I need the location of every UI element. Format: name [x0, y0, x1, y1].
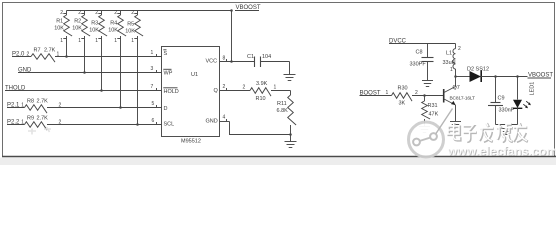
svg-text:L1: L1 — [446, 51, 452, 57]
IC U1 M95512 EEPROM — [162, 47, 220, 145]
wire R30 to base — [412, 95, 444, 97]
pin 1 number — [151, 50, 157, 57]
svg-text:R7: R7 — [34, 48, 41, 54]
svg-text:2: 2 — [223, 84, 226, 90]
resistor R4 10K pull-up — [108, 10, 126, 109]
pin 3 number — [151, 66, 157, 73]
net label GND — [18, 68, 32, 74]
svg-text:33uH: 33uH — [443, 60, 456, 66]
svg-text:R3: R3 — [91, 20, 98, 26]
node junction R3 — [100, 89, 103, 92]
svg-text:2.7K: 2.7K — [37, 99, 49, 105]
resistor R10 3.9K — [243, 81, 277, 102]
wire P2.2 row — [7, 124, 25, 126]
resistor R30 3K — [392, 86, 419, 107]
net label VBOOST (left block) — [235, 5, 261, 11]
diode D2 SS12 — [467, 67, 489, 83]
ground (C1) — [284, 75, 296, 81]
svg-text:C9: C9 — [498, 96, 505, 102]
wire BOOST to R30 — [360, 95, 392, 97]
net label THOLD — [5, 86, 26, 92]
node LED junction — [516, 75, 519, 78]
capacitor C1 104 — [247, 54, 271, 67]
ground (R31) — [419, 127, 430, 133]
svg-text:1: 1 — [60, 38, 63, 44]
svg-text:47K: 47K — [429, 112, 439, 118]
svg-text:U1: U1 — [191, 72, 198, 78]
svg-text:GND: GND — [206, 119, 218, 125]
svg-text:1: 1 — [274, 85, 277, 91]
watermark url elecfans.com — [447, 144, 556, 159]
node junction R1 — [65, 55, 68, 58]
node junction R5 — [136, 123, 139, 126]
svg-text:4: 4 — [223, 115, 226, 121]
svg-text:2: 2 — [131, 10, 134, 16]
node base/R31 junction — [423, 94, 426, 97]
node VBOOST/VCC junction — [230, 60, 233, 63]
svg-text:R31: R31 — [428, 103, 438, 109]
pin 2 Q stub — [220, 84, 251, 91]
svg-text:VCC: VCC — [206, 58, 218, 64]
resistor R31 47K — [422, 96, 439, 127]
svg-text:5: 5 — [152, 101, 155, 107]
transistor Q7 BC817-16LT — [444, 77, 475, 122]
pin 8 VCC stub — [220, 56, 255, 62]
svg-text:SCL: SCL — [164, 121, 175, 127]
svg-text:330nF: 330nF — [499, 108, 515, 114]
svg-text:R8: R8 — [27, 99, 34, 105]
resistor R3 10K pull-up — [89, 10, 107, 92]
schematic outer frame — [3, 3, 555, 157]
net label VBOOST (right) — [528, 73, 554, 79]
ground (C9/LED) — [501, 125, 512, 135]
node junction R4 — [119, 106, 122, 109]
svg-text:2.7K: 2.7K — [37, 116, 49, 122]
wire P2.0 row — [12, 56, 31, 58]
svg-text:1: 1 — [95, 38, 98, 44]
resistor R2 10K pull-up — [72, 10, 90, 74]
svg-text:3.9K: 3.9K — [256, 81, 268, 87]
node C9 junction — [494, 75, 497, 78]
svg-text:Q7: Q7 — [453, 85, 460, 91]
net label P2.1 — [7, 103, 24, 109]
svg-text:3: 3 — [151, 66, 154, 72]
svg-text:10K: 10K — [54, 26, 64, 32]
svg-text:R30: R30 — [398, 86, 408, 92]
svg-text:6: 6 — [152, 118, 155, 124]
wire C1 to ground — [261, 61, 290, 63]
svg-text:10K: 10K — [108, 27, 118, 33]
inductor L1 33uH — [443, 44, 462, 77]
node collector/diode junction — [454, 75, 457, 78]
ground (C8) — [422, 81, 433, 87]
wire DVCC rail — [389, 43, 456, 45]
svg-text:R1: R1 — [56, 19, 63, 25]
ground (IC/R11) — [285, 135, 297, 148]
svg-text:WP: WP — [164, 71, 173, 77]
svg-text:2: 2 — [78, 10, 81, 16]
svg-text:2: 2 — [458, 46, 461, 52]
svg-text:R5: R5 — [127, 21, 134, 27]
net label DVCC — [389, 39, 407, 45]
capacitor C8 330PF — [410, 44, 434, 81]
svg-text:10K: 10K — [125, 28, 135, 34]
LED LED1 — [513, 77, 536, 125]
svg-text:2: 2 — [95, 10, 98, 16]
svg-text:D: D — [164, 106, 168, 112]
node VBOOST junction — [230, 9, 233, 12]
svg-text:R10: R10 — [256, 96, 266, 102]
svg-text:1: 1 — [131, 38, 134, 44]
svg-text:7: 7 — [151, 84, 154, 90]
node R11/GND junction — [289, 133, 292, 136]
svg-text:LED1: LED1 — [530, 82, 536, 96]
svg-text:2: 2 — [114, 10, 117, 16]
wire GND row — [18, 72, 162, 74]
resistor R8 2.7K — [25, 99, 62, 114]
resistor R5 10K pull-up — [125, 10, 143, 126]
wire node to diode — [456, 76, 471, 78]
svg-text:HOLD: HOLD — [164, 89, 179, 95]
svg-text:2: 2 — [243, 85, 246, 91]
svg-text:2.7K: 2.7K — [44, 48, 56, 54]
svg-text:Q: Q — [214, 88, 219, 94]
wire diode to VBOOST — [481, 76, 528, 78]
svg-text:1: 1 — [78, 38, 81, 44]
svg-text:1: 1 — [114, 38, 117, 44]
pin 7 number — [151, 84, 157, 91]
svg-text:6.8K: 6.8K — [277, 108, 289, 114]
svg-text:M95512: M95512 — [181, 139, 201, 145]
faint watermark remnant — [28, 127, 51, 135]
resistor R9 2.7K — [25, 116, 62, 131]
watermark logo circle — [409, 109, 453, 158]
svg-text:330PF: 330PF — [410, 62, 427, 68]
wire GND pin to ground node — [230, 122, 291, 135]
pin 4 GND stub — [220, 115, 230, 122]
svg-text:R11: R11 — [277, 101, 287, 107]
pin 5 number — [152, 101, 157, 108]
svg-text:R9: R9 — [27, 116, 34, 122]
svg-text:BC817-16LT: BC817-16LT — [450, 96, 476, 102]
wire P2.1 row — [7, 107, 25, 109]
wire THOLD row — [5, 90, 162, 92]
wire VBOOST top rail — [67, 10, 232, 12]
svg-text:1: 1 — [450, 67, 453, 73]
wire VBOOST vertical drop to VCC — [231, 11, 233, 62]
ground (Q7 emitter) — [450, 122, 461, 128]
pin 6 number — [152, 118, 157, 125]
net label P2.0 — [12, 52, 30, 58]
wire C9/LED ground run — [496, 124, 518, 126]
resistor R1 10K pull-up — [54, 10, 72, 58]
svg-text:2: 2 — [60, 10, 63, 16]
svg-text:10K: 10K — [89, 27, 99, 33]
svg-text:R4: R4 — [110, 20, 117, 26]
svg-text:8: 8 — [223, 56, 226, 62]
svg-text:R2: R2 — [74, 19, 81, 25]
net label P2.2 — [7, 120, 24, 126]
svg-text:10K: 10K — [72, 26, 82, 32]
capacitor C9 330nF — [488, 77, 515, 125]
net label BOOST — [360, 90, 389, 97]
watermark text dianzifashaoyou — [449, 123, 528, 142]
svg-text:1: 1 — [151, 50, 154, 56]
svg-text:C1: C1 — [247, 54, 254, 60]
page background strip below schematic frame — [0, 158, 556, 165]
wire R10 to R11 — [271, 90, 291, 92]
svg-text:104: 104 — [262, 54, 271, 60]
svg-text:S: S — [164, 51, 168, 57]
node junction R2 — [83, 71, 86, 74]
svg-text:www.elecfans.com: www.elecfans.com — [447, 144, 556, 158]
svg-text:3K: 3K — [399, 101, 406, 107]
resistor R7 2.7K — [31, 48, 60, 63]
resistor R11 6.8K — [277, 91, 297, 135]
svg-text:C8: C8 — [416, 50, 423, 56]
